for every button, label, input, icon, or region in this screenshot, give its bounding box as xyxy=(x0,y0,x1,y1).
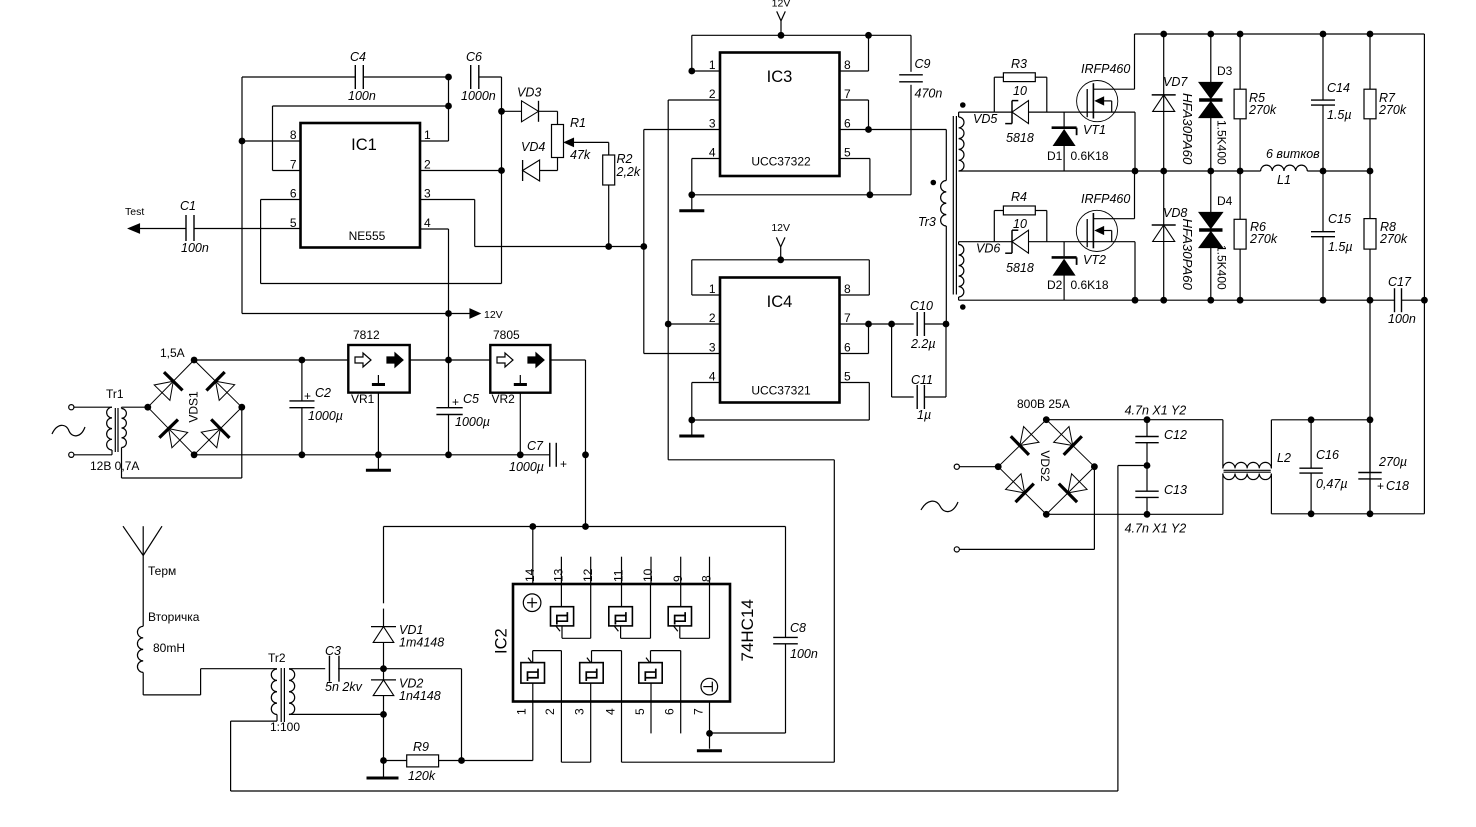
ground IC2 xyxy=(697,733,722,750)
diode VD8 HFA30PA60 xyxy=(1152,171,1195,300)
zener D1 0.6K18 xyxy=(1047,112,1109,171)
svg-text:10: 10 xyxy=(1013,217,1027,231)
wire IC3 pin 1 xyxy=(688,35,720,74)
svg-text:VD3: VD3 xyxy=(517,86,541,100)
IC3 pin numbers xyxy=(709,58,851,160)
svg-text:6: 6 xyxy=(844,117,851,131)
capacitor C13 4.7n X1 Y2 xyxy=(1125,466,1187,536)
svg-text:4: 4 xyxy=(709,370,716,384)
wire IC4 pin 7 to C10 xyxy=(840,321,914,328)
diode VD4 xyxy=(521,140,545,181)
input terminal top xyxy=(69,405,112,410)
resistor R1 potentiometer 47k xyxy=(552,116,609,162)
svg-text:HFA30PA60: HFA30PA60 xyxy=(1180,93,1195,165)
capacitor C18 270µ xyxy=(1358,420,1409,514)
IC2 pin 14 wire xyxy=(532,527,534,585)
diode VD1 1m4148 xyxy=(371,527,444,669)
diode VD7 HFA30PA60 xyxy=(1152,34,1195,171)
svg-text:C13: C13 xyxy=(1164,483,1187,497)
svg-text:13: 13 xyxy=(552,568,566,582)
capacitor C7 1000µ xyxy=(509,439,567,474)
wire output bottom rail xyxy=(1271,510,1424,517)
gate U2F xyxy=(639,651,681,702)
svg-text:1.5µ: 1.5µ xyxy=(1328,240,1353,254)
Tr3 label xyxy=(918,215,936,229)
svg-text:D3: D3 xyxy=(1217,64,1233,78)
svg-text:VDS2: VDS2 xyxy=(1038,450,1052,482)
svg-text:100n: 100n xyxy=(1388,312,1416,326)
IC2 plus circle xyxy=(523,594,541,612)
ground main xyxy=(366,455,391,471)
svg-text:C7: C7 xyxy=(527,439,544,453)
svg-text:6: 6 xyxy=(844,341,851,355)
inductor 80mH xyxy=(137,626,185,672)
AC squiggle right xyxy=(921,501,958,511)
svg-text:1n4148: 1n4148 xyxy=(399,689,441,703)
capacitor C10 2.2µ xyxy=(910,299,936,351)
svg-text:470n: 470n xyxy=(915,87,943,101)
wire IC3 pin 8 xyxy=(840,35,869,71)
gate U2B xyxy=(609,584,651,638)
svg-text:R2: R2 xyxy=(617,152,633,166)
svg-text:VD4: VD4 xyxy=(521,140,545,154)
diode VD6 5818 xyxy=(976,230,1034,275)
svg-text:2: 2 xyxy=(543,708,557,715)
svg-text:C15: C15 xyxy=(1328,212,1351,226)
svg-text:Вторичка: Вторичка xyxy=(148,610,200,624)
wire R8 column down to output xyxy=(1367,300,1374,517)
capacitor C16 0,47µ xyxy=(1299,420,1347,514)
svg-text:1000n: 1000n xyxy=(461,89,496,103)
svg-text:VD5: VD5 xyxy=(973,112,997,126)
svg-text:270k: 270k xyxy=(1379,232,1408,246)
wire mid rail xyxy=(959,168,1374,175)
gate U2A xyxy=(551,584,591,638)
capacitor C1 100n xyxy=(180,199,209,255)
wire IC3 pin 6 to Tr3 xyxy=(840,130,947,181)
input terminal bottom xyxy=(69,452,112,457)
gate U2C xyxy=(668,584,709,638)
svg-text:9: 9 xyxy=(671,575,685,582)
capacitor C11 1µ loop xyxy=(892,324,946,422)
transformer Tr1 xyxy=(90,387,242,478)
svg-text:7: 7 xyxy=(844,311,851,325)
gate U2D xyxy=(521,651,562,702)
svg-text:VD6: VD6 xyxy=(976,242,1000,256)
svg-text:+: + xyxy=(452,395,459,409)
diode VD5 5818 xyxy=(973,101,1034,145)
Test arrow xyxy=(125,206,186,233)
svg-text:2: 2 xyxy=(424,158,431,172)
inductor L2 common mode choke xyxy=(1223,420,1291,515)
wire left rail x=242 xyxy=(239,77,246,314)
svg-text:IRFP460: IRFP460 xyxy=(1081,192,1130,206)
wire IC3 pin 7 xyxy=(840,100,872,133)
svg-text:10: 10 xyxy=(641,568,655,582)
wire 12V arrow line xyxy=(242,309,503,321)
svg-text:3: 3 xyxy=(424,187,431,201)
svg-text:C1: C1 xyxy=(180,199,196,213)
svg-text:VR2: VR2 xyxy=(492,392,516,406)
svg-text:VDS1: VDS1 xyxy=(186,391,200,423)
capacitor C6 xyxy=(461,50,496,103)
Tr3 top secondary phase dot xyxy=(960,102,966,108)
bridge rectifier VDS2 800В 25А xyxy=(995,397,1098,518)
svg-text:8: 8 xyxy=(844,58,851,72)
svg-text:8: 8 xyxy=(700,575,714,582)
wire output top rail xyxy=(1271,416,1370,423)
svg-text:6: 6 xyxy=(663,708,677,715)
diode VD3 xyxy=(517,86,541,122)
wire VDS1 plus rail xyxy=(194,357,348,364)
svg-text:C6: C6 xyxy=(466,50,482,64)
inductor L1 6 витков xyxy=(1261,147,1321,187)
capacitor C3 5n 2kv xyxy=(325,644,363,694)
svg-text:D4: D4 xyxy=(1217,194,1233,208)
svg-text:R3: R3 xyxy=(1011,57,1027,71)
svg-text:7: 7 xyxy=(844,87,851,101)
wire IC3 pin 3 net xyxy=(644,130,720,354)
wire Tr2 right top to C3 xyxy=(289,668,325,670)
svg-text:12V: 12V xyxy=(771,222,790,234)
svg-text:1.5K400: 1.5K400 xyxy=(1215,120,1229,165)
wire R2 bottom to net3 xyxy=(605,185,612,250)
svg-text:C16: C16 xyxy=(1316,448,1339,462)
12V supply antenna IC3 xyxy=(772,0,791,39)
svg-text:Tr3: Tr3 xyxy=(918,215,936,229)
wire IC1 pin 6 loop xyxy=(261,200,502,284)
IC2 top pin stubs xyxy=(561,557,709,584)
node at C4/C6 junction xyxy=(445,74,452,81)
wire IC4 pin 6 xyxy=(840,324,869,354)
svg-text:12V: 12V xyxy=(484,309,503,321)
svg-text:2: 2 xyxy=(709,87,716,101)
wire VR2 ground pin xyxy=(519,393,521,455)
svg-text:VD7: VD7 xyxy=(1163,75,1188,89)
svg-text:+: + xyxy=(1377,479,1384,493)
wire right rail x=501.5 xyxy=(501,77,503,284)
IC2 ground circle xyxy=(701,678,718,695)
svg-text:C11: C11 xyxy=(911,373,933,387)
wire C10 right xyxy=(924,321,949,328)
svg-text:NE555: NE555 xyxy=(349,229,386,243)
svg-text:5818: 5818 xyxy=(1006,131,1034,145)
wire VD6 to VT2 source xyxy=(1029,241,1136,243)
svg-text:14: 14 xyxy=(523,568,537,582)
svg-text:8: 8 xyxy=(290,128,297,142)
Tr3 primary phase dot xyxy=(931,180,937,186)
wire sensor to Tr2 xyxy=(143,669,277,695)
wire IC1 pin 8 xyxy=(242,140,301,142)
svg-text:R1: R1 xyxy=(570,116,586,130)
svg-text:C17: C17 xyxy=(1388,275,1412,289)
wire IC4 pin 2 xyxy=(668,323,720,325)
wire VD3 branch xyxy=(498,108,521,115)
Tr3 top secondary winding xyxy=(959,112,995,171)
svg-text:6: 6 xyxy=(290,187,297,201)
svg-text:7805: 7805 xyxy=(493,328,520,342)
regulator VR2 7805 xyxy=(490,328,550,406)
wire VR1 to VR2 xyxy=(410,357,491,364)
svg-text:C18: C18 xyxy=(1386,479,1409,493)
svg-text:5818: 5818 xyxy=(1006,261,1034,275)
resistor R7 270k xyxy=(1364,34,1407,171)
svg-text:L2: L2 xyxy=(1277,451,1291,465)
svg-text:7: 7 xyxy=(290,158,297,172)
svg-text:12V: 12V xyxy=(772,0,791,10)
svg-text:80mH: 80mH xyxy=(153,641,185,655)
capacitor C2 1000µ xyxy=(289,360,343,455)
wire IC3 pin 2 net xyxy=(665,100,835,762)
resistor R6 270k xyxy=(1234,171,1278,300)
svg-text:UCC37322: UCC37322 xyxy=(751,155,811,169)
svg-text:5: 5 xyxy=(290,216,297,230)
svg-text:IC3: IC3 xyxy=(767,68,793,86)
svg-text:800В 25А: 800В 25А xyxy=(1017,397,1070,411)
svg-text:C10: C10 xyxy=(910,299,933,313)
svg-text:2.2µ: 2.2µ xyxy=(910,337,936,351)
svg-text:C3: C3 xyxy=(325,644,341,658)
wire VDS1 ground rail xyxy=(194,451,550,458)
svg-text:Терм: Терм xyxy=(148,564,176,578)
svg-text:C4: C4 xyxy=(350,50,366,64)
wire bottom rail xyxy=(959,297,1395,304)
svg-text:1: 1 xyxy=(709,58,716,72)
svg-text:IRFP460: IRFP460 xyxy=(1081,62,1130,76)
wire feedback from C12/C13 mid xyxy=(1118,466,1147,792)
IC2 label xyxy=(493,628,511,654)
TVS D4 1.5K400 xyxy=(1199,171,1233,300)
capacitor C15 1.5µ xyxy=(1311,171,1353,300)
svg-text:1: 1 xyxy=(709,282,716,296)
svg-text:11: 11 xyxy=(612,569,626,582)
capacitor C4 xyxy=(348,50,376,103)
wire IC1 pin 3 xyxy=(420,200,647,250)
svg-text:UCC37321: UCC37321 xyxy=(751,384,811,398)
svg-text:VR1: VR1 xyxy=(351,392,375,406)
svg-text:270k: 270k xyxy=(1378,103,1407,117)
svg-text:C12: C12 xyxy=(1164,428,1187,442)
svg-text:C5: C5 xyxy=(463,392,479,406)
wire IC1 pin 1 xyxy=(420,77,449,141)
regulator VR1 7812 xyxy=(348,328,409,406)
svg-text:C8: C8 xyxy=(790,621,806,635)
wire pin7 loop y=106 xyxy=(273,103,452,110)
svg-text:2: 2 xyxy=(709,311,716,325)
svg-text:IC2: IC2 xyxy=(493,628,511,654)
wire IC1 pin 4 / 12V vertical xyxy=(420,229,452,360)
svg-text:0.6K18: 0.6K18 xyxy=(1071,278,1109,292)
svg-text:VT1: VT1 xyxy=(1083,123,1106,137)
svg-text:1:100: 1:100 xyxy=(270,720,300,734)
wire IC1 pin 5 xyxy=(194,228,301,230)
wire C3 to VD1/VD2 node xyxy=(338,665,387,672)
antenna Терм xyxy=(123,526,200,626)
svg-text:5n 2kv: 5n 2kv xyxy=(325,680,363,694)
svg-text:120k: 120k xyxy=(408,769,436,783)
wire VDS2 top vertex rail xyxy=(1046,416,1223,423)
svg-text:C14: C14 xyxy=(1327,81,1350,95)
svg-text:3: 3 xyxy=(709,341,716,355)
svg-text:1.5K400: 1.5K400 xyxy=(1215,245,1229,290)
wire IC4 pin 4 ground loop xyxy=(688,383,869,424)
svg-text:1000µ: 1000µ xyxy=(509,460,544,474)
ground VD2/R9 xyxy=(367,761,399,779)
wire far right vertical xyxy=(1423,34,1425,514)
wire top rail xyxy=(1135,31,1425,38)
svg-text:47k: 47k xyxy=(570,148,591,162)
svg-text:Tr1: Tr1 xyxy=(106,387,124,401)
wire VD3 cathode to R1 top xyxy=(539,111,558,124)
resistor R4 10 xyxy=(994,190,1047,242)
svg-text:C2: C2 xyxy=(315,386,331,400)
svg-text:4.7n X1 Y2: 4.7n X1 Y2 xyxy=(1125,404,1187,418)
wire IC1 pin 7 xyxy=(273,106,301,171)
svg-text:10: 10 xyxy=(1013,84,1027,98)
svg-text:1.5µ: 1.5µ xyxy=(1327,108,1352,122)
resistor R9 120k xyxy=(384,740,465,783)
capacitor C9 470n xyxy=(899,35,942,195)
wire VT1 source to mid rail xyxy=(1132,112,1139,174)
svg-text:R4: R4 xyxy=(1011,190,1027,204)
svg-text:4.7n X1 Y2: 4.7n X1 Y2 xyxy=(1125,522,1187,536)
Tr3 bottom secondary winding xyxy=(959,242,995,301)
wire IC1 pin 2 to VD4 xyxy=(420,167,505,174)
capacitor C14 1.5µ xyxy=(1311,34,1352,171)
svg-text:1000µ: 1000µ xyxy=(308,409,343,423)
capacitor C8 100n xyxy=(710,527,818,734)
svg-text:270k: 270k xyxy=(1248,103,1277,117)
svg-text:100n: 100n xyxy=(790,647,818,661)
svg-text:4: 4 xyxy=(603,708,617,715)
svg-text:C9: C9 xyxy=(915,57,931,71)
svg-text:1000µ: 1000µ xyxy=(455,415,490,429)
svg-text:VT2: VT2 xyxy=(1083,253,1106,267)
IC4 pin numbers xyxy=(709,282,851,384)
svg-text:1: 1 xyxy=(424,128,431,142)
svg-text:5: 5 xyxy=(844,146,851,160)
svg-text:4: 4 xyxy=(424,216,431,230)
svg-text:0.6K18: 0.6K18 xyxy=(1071,149,1109,163)
Tr3 bottom secondary phase dot xyxy=(960,304,966,310)
svg-text:1,5A: 1,5A xyxy=(160,346,185,360)
wire VD4 anode to R1 bottom xyxy=(540,158,558,171)
capacitor C5 1000µ xyxy=(436,360,490,455)
wire IC4 top supply xyxy=(692,259,870,261)
74HC14 label xyxy=(738,599,757,661)
zener D2 0.6K18 xyxy=(1047,242,1109,301)
svg-text:4: 4 xyxy=(709,146,716,160)
svg-text:1µ: 1µ xyxy=(917,408,931,422)
svg-text:0,47µ: 0,47µ xyxy=(1316,477,1348,491)
wire +5V supply line xyxy=(384,523,786,530)
IC1 pin numbers xyxy=(290,128,431,230)
transformer Tr3 primary winding xyxy=(941,181,947,325)
transformer Tr2 xyxy=(268,651,300,734)
svg-text:7812: 7812 xyxy=(353,328,380,342)
Tr3 core xyxy=(953,116,956,295)
resistor R2 2,2k xyxy=(603,152,641,185)
svg-text:HFA30PA60: HFA30PA60 xyxy=(1180,219,1195,291)
TVS D3 1.5K400 xyxy=(1199,34,1233,171)
op-amp IC1 NE555 box xyxy=(301,123,421,248)
svg-text:100n: 100n xyxy=(181,241,209,255)
gate U2E xyxy=(580,651,622,702)
wire Tr2 right bottom xyxy=(289,711,387,718)
svg-text:100n: 100n xyxy=(348,89,376,103)
resistor R3 10 xyxy=(994,57,1047,112)
wire VR1 ground pin xyxy=(377,393,379,455)
bridge rectifier VDS1 xyxy=(144,346,245,458)
svg-text:Tr2: Tr2 xyxy=(268,651,286,665)
ground IC4 xyxy=(679,420,704,436)
AC squiggle left xyxy=(52,425,85,436)
svg-text:6 витков: 6 витков xyxy=(1266,147,1320,161)
svg-text:270µ: 270µ xyxy=(1378,455,1407,469)
svg-text:L1: L1 xyxy=(1277,173,1291,187)
svg-text:3: 3 xyxy=(709,117,716,131)
resistor R5 270k xyxy=(1234,34,1277,171)
wire R9 to C3 node xyxy=(384,669,462,761)
transistor VT1 IRFP460 xyxy=(1077,34,1135,137)
op-amp IC3 UCC37322 box xyxy=(720,53,840,177)
svg-text:Test: Test xyxy=(125,206,144,218)
wire IC3 pin 4 ground loop xyxy=(688,159,911,199)
svg-text:D1: D1 xyxy=(1047,149,1063,163)
svg-text:IC4: IC4 xyxy=(767,293,793,311)
svg-text:IC1: IC1 xyxy=(351,136,377,154)
capacitor C17 100n xyxy=(1388,275,1428,326)
ground IC3 xyxy=(679,195,704,211)
resistor R8 270k xyxy=(1364,171,1408,300)
svg-text:+: + xyxy=(304,389,311,403)
wire VR2 output xyxy=(550,360,588,530)
transistor VT2 IRFP460 xyxy=(1076,171,1134,267)
wire IC4 pin 5 xyxy=(840,383,870,421)
IC2 pin numbers top xyxy=(523,568,714,582)
capacitor C12 4.7n X1 Y2 xyxy=(1125,404,1187,469)
wire VD5 to VT1 source xyxy=(1029,111,1136,113)
svg-text:D2: D2 xyxy=(1047,278,1063,292)
svg-text:5: 5 xyxy=(633,708,647,715)
svg-text:5: 5 xyxy=(844,370,851,384)
IC2 pin numbers bottom xyxy=(515,708,706,715)
logic IC2 74HC14 box xyxy=(513,584,730,702)
wire IC3 pin 5 xyxy=(840,159,870,195)
output terminal top xyxy=(954,464,998,469)
wire VT2 source to bottom rail xyxy=(1132,242,1139,304)
svg-text:+: + xyxy=(560,457,567,471)
svg-text:1m4148: 1m4148 xyxy=(399,636,444,650)
wire IC4 pin 1 xyxy=(692,260,720,295)
svg-text:8: 8 xyxy=(844,282,851,296)
diode VD2 1n4148 xyxy=(371,669,441,764)
svg-text:7: 7 xyxy=(691,708,705,715)
output terminal bottom xyxy=(954,467,1094,552)
svg-text:270k: 270k xyxy=(1249,232,1278,246)
svg-text:R9: R9 xyxy=(413,740,429,754)
wire VDS2 bottom vertex rail xyxy=(1046,511,1223,518)
wire IC3 top supply xyxy=(692,32,911,39)
wire R9 to IC2 pin 1 xyxy=(462,760,533,762)
IC2 bottom pin wires xyxy=(533,702,835,763)
wire Tr2 left bottom to feedback xyxy=(231,715,1118,792)
op-amp IC4 UCC37321 box xyxy=(720,278,840,403)
svg-text:1: 1 xyxy=(515,708,529,715)
svg-text:3: 3 xyxy=(573,708,587,715)
12V supply antenna IC4 xyxy=(771,222,790,263)
svg-text:12В 0,7А: 12В 0,7А xyxy=(90,459,139,473)
